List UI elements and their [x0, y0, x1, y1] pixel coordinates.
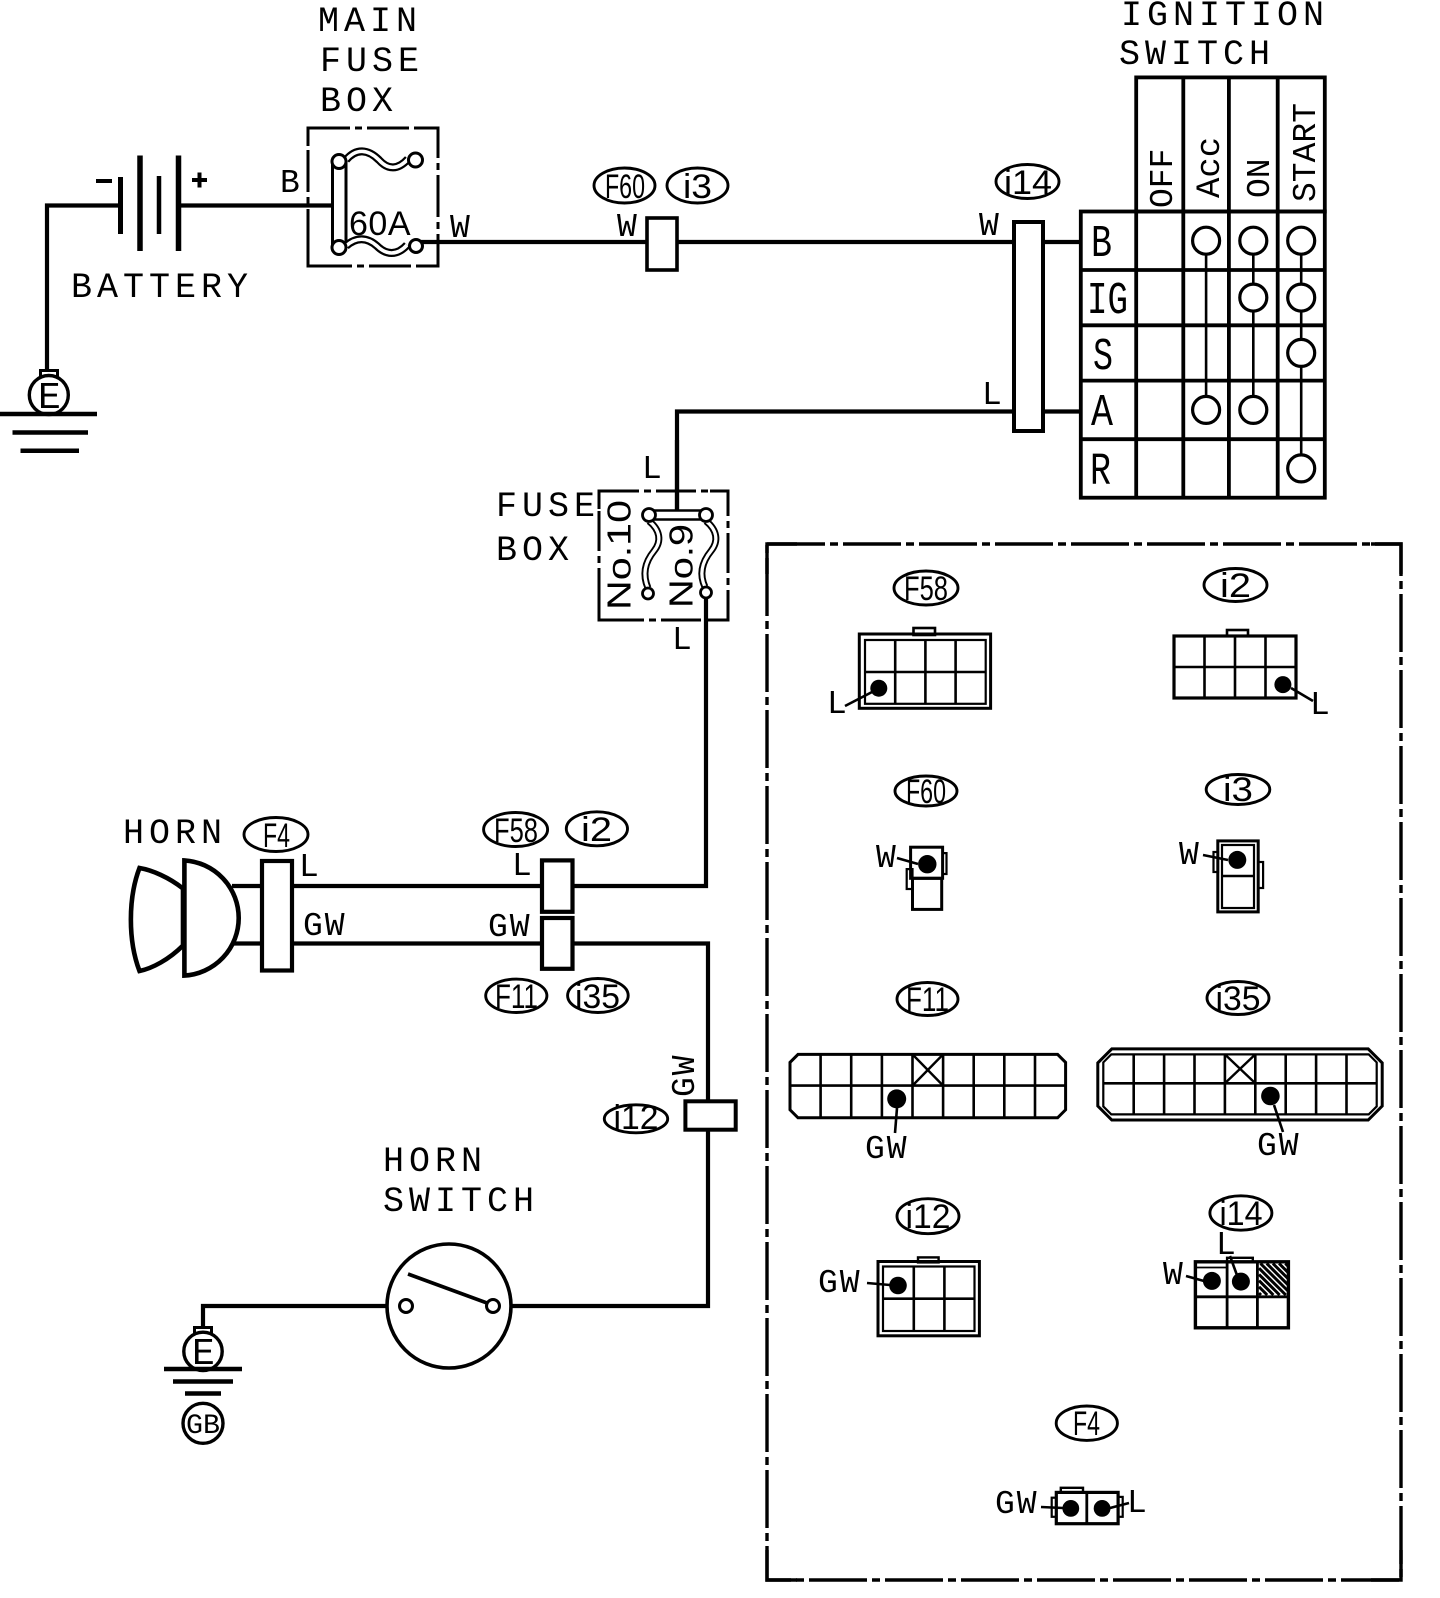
svg-text:MAIN: MAIN — [318, 2, 422, 42]
svg-text:L: L — [1127, 1485, 1149, 1522]
svg-text:SWITCH: SWITCH — [383, 1182, 539, 1222]
svg-text:i35: i35 — [1216, 980, 1261, 1018]
svg-text:BOX: BOX — [496, 531, 574, 571]
svg-text:HORN: HORN — [123, 814, 227, 854]
svg-text:L: L — [299, 849, 321, 886]
svg-text:B: B — [280, 165, 302, 202]
svg-text:W: W — [617, 209, 639, 246]
svg-text:No.10: No.10 — [601, 500, 638, 610]
svg-text:Acc: Acc — [1192, 137, 1230, 198]
svg-text:F60: F60 — [605, 168, 645, 206]
svg-text:BATTERY: BATTERY — [71, 268, 253, 308]
svg-text:L: L — [512, 848, 534, 885]
svg-text:F60: F60 — [906, 773, 946, 811]
svg-text:S: S — [1093, 332, 1113, 383]
svg-text:F4: F4 — [263, 817, 290, 855]
svg-text:GW: GW — [488, 909, 532, 946]
svg-text:FUSE: FUSE — [496, 487, 600, 527]
svg-text:HORN: HORN — [383, 1142, 487, 1182]
svg-text:FUSE: FUSE — [320, 42, 424, 82]
svg-text:L: L — [1310, 687, 1332, 724]
svg-text:A: A — [1091, 388, 1113, 439]
svg-text:F11: F11 — [906, 981, 949, 1019]
svg-text:60A: 60A — [349, 205, 411, 243]
svg-text:No.9: No.9 — [663, 524, 700, 608]
svg-text:L: L — [642, 451, 664, 488]
svg-text:i14: i14 — [1004, 164, 1052, 202]
svg-text:GW: GW — [995, 1486, 1039, 1523]
svg-text:i2: i2 — [1220, 567, 1251, 605]
svg-text:R: R — [1090, 447, 1111, 498]
svg-text:ON: ON — [1242, 158, 1279, 198]
svg-text:W: W — [876, 840, 898, 877]
svg-text:GB: GB — [186, 1411, 220, 1442]
svg-text:i2: i2 — [581, 811, 612, 849]
svg-text:i3: i3 — [1223, 771, 1253, 809]
svg-text:L: L — [672, 622, 694, 659]
svg-text:GW: GW — [818, 1265, 862, 1302]
svg-text:OFF: OFF — [1145, 149, 1182, 208]
svg-text:i12: i12 — [906, 1198, 951, 1236]
svg-text:W: W — [1179, 837, 1201, 874]
svg-text:SWITCH: SWITCH — [1119, 35, 1275, 75]
svg-text:GW: GW — [865, 1131, 909, 1168]
svg-text:IGNITION: IGNITION — [1121, 0, 1329, 36]
svg-text:F4: F4 — [1073, 1405, 1100, 1443]
svg-text:L: L — [1216, 1227, 1238, 1264]
svg-text:F58: F58 — [904, 570, 948, 608]
svg-text:W: W — [1163, 1257, 1185, 1294]
svg-text:L: L — [982, 377, 1004, 414]
svg-text:i12: i12 — [614, 1099, 659, 1137]
svg-text:B: B — [1091, 219, 1112, 270]
svg-text:GW: GW — [1257, 1128, 1301, 1165]
svg-text:IG: IG — [1087, 276, 1128, 327]
svg-text:F58: F58 — [494, 812, 538, 850]
svg-text:GW: GW — [303, 908, 347, 945]
svg-text:W: W — [979, 208, 1001, 245]
svg-text:BOX: BOX — [320, 82, 398, 122]
svg-text:F11: F11 — [495, 978, 538, 1016]
svg-text:GW: GW — [667, 1053, 704, 1097]
svg-text:i3: i3 — [683, 168, 712, 206]
svg-text:L: L — [827, 686, 849, 723]
svg-text:i35: i35 — [575, 978, 620, 1016]
svg-text:START: START — [1288, 103, 1325, 202]
svg-text:W: W — [450, 210, 472, 247]
